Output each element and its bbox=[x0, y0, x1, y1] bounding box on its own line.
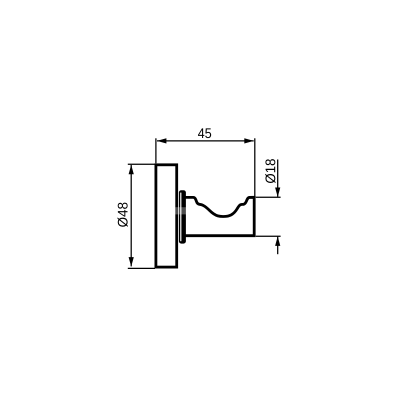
hook body bbox=[185, 197, 255, 235]
collar bbox=[179, 190, 186, 243]
dim O48 top arrow bbox=[129, 165, 134, 175]
dim O18 upper arrow bbox=[275, 188, 280, 198]
dim O48 extension line bottom bbox=[128, 267, 155, 269]
label O18 bbox=[265, 159, 275, 183]
dim O18 extension line bottom bbox=[256, 235, 281, 237]
dim O48 dimension line bbox=[130, 165, 132, 267]
collar inner highlight bbox=[180, 193, 181, 242]
dim O48 extension line top bbox=[128, 163, 155, 165]
dim O48 bottom arrow bbox=[129, 257, 134, 267]
label O48 bbox=[117, 203, 127, 227]
dim O18 dimension line lower segment bbox=[277, 237, 279, 255]
dim 45 dimension line bbox=[157, 140, 254, 142]
dim O18 extension line top bbox=[256, 196, 281, 198]
watermark light band over collar bbox=[175, 207, 187, 214]
dim 45 extension line left bbox=[155, 138, 157, 163]
dim 45 right arrow bbox=[244, 138, 254, 143]
dim 45 extension line right bbox=[254, 138, 256, 196]
dim O18 dimension line upper segment bbox=[277, 160, 279, 197]
wall plate (side view) bbox=[156, 165, 177, 267]
dim O18 lower arrow bbox=[275, 236, 280, 246]
dim 45 left arrow bbox=[157, 138, 167, 143]
label 45 bbox=[198, 128, 211, 138]
